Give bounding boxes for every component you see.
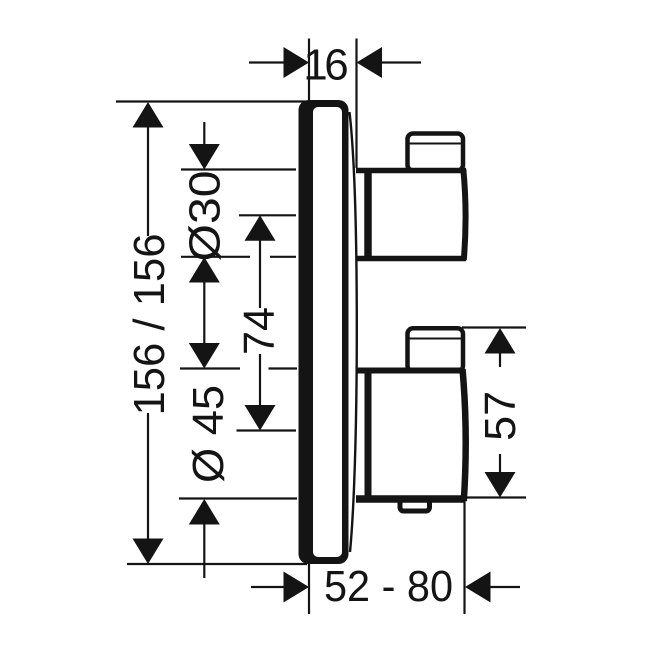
dim 57 arrow down: [485, 472, 516, 498]
upper handle grip left edge: [364, 168, 372, 261]
dim 16 arrow right: [357, 47, 383, 78]
dim Ø30 dimension line above: [203, 122, 205, 145]
dim 74 arrow down: [245, 405, 276, 431]
upper handle grip top edge: [356, 168, 466, 174]
svg-text:52 - 80: 52 - 80: [324, 562, 453, 611]
dim 52-80 leader line left: [251, 586, 284, 588]
dim 74 arrow up: [245, 215, 276, 241]
lower handle adjuster tab: [400, 498, 430, 511]
dim Ø45 top extension line segment a: [180, 367, 240, 369]
dim Ø30 dimension line below / link to Ø45: [203, 282, 205, 344]
dim 57 bottom extension line: [465, 496, 526, 498]
dim 52-80 leader line right: [490, 586, 520, 588]
escutcheon plate front profile curve: [350, 112, 357, 552]
dim 156 top extension line: [116, 100, 306, 102]
dim 16 arrow left: [284, 47, 310, 78]
lower handle grip bottom edge: [356, 495, 464, 503]
lower handle cap seam: [409, 338, 461, 340]
lower handle cap: [408, 328, 464, 371]
dim 156 arrow up: [133, 102, 164, 128]
dim 74 upper leader: [259, 241, 261, 309]
dim Ø45 arrow down: [189, 343, 220, 369]
upper handle centerline: [239, 214, 296, 216]
dim Ø45 arrow up: [189, 499, 220, 525]
svg-text:Ø30: Ø30: [181, 171, 230, 262]
dim 16 leader line left: [249, 61, 284, 63]
dim Ø30 arrow up: [189, 257, 220, 283]
dim Ø45 dimension line below: [203, 524, 205, 578]
dim 74 lower leader: [259, 354, 261, 406]
dim 16 leader line right: [382, 61, 421, 63]
dim Ø30 arrow down: [189, 144, 220, 170]
upper handle grip bottom edge: [356, 256, 466, 262]
dim 52-80 right extension line: [463, 497, 465, 614]
dim 156 arrow down: [133, 539, 164, 565]
dim 156 bottom extension line: [127, 563, 307, 565]
lower handle grip right edge: [463, 369, 466, 501]
dim 57 top extension line: [462, 326, 526, 328]
dim Ø45 top extension line segment b: [269, 367, 298, 369]
dim Ø30 bottom extension line segment a: [181, 256, 250, 258]
dim 16 right extension line: [355, 39, 357, 169]
svg-text:74: 74: [235, 307, 284, 355]
dim 156 dimension line lower segment: [147, 413, 149, 539]
svg-text:156 / 156: 156 / 156: [125, 234, 174, 416]
dim Ø45 bottom extension line: [179, 497, 297, 499]
upper handle cap seam: [409, 143, 461, 145]
dim 52-80 arrow pointing right: [284, 572, 310, 603]
dim 57 dimension line lower segment: [499, 454, 501, 473]
dim 57 dimension line upper segment: [499, 353, 501, 367]
dim 156 dimension line upper segment: [147, 127, 149, 236]
upper handle grip right edge: [463, 169, 465, 260]
dim 16 left extension line: [308, 39, 310, 101]
upper handle cap: [408, 134, 464, 171]
escutcheon plate body: [299, 100, 349, 564]
lower handle grip left edge: [365, 368, 372, 503]
lower handle grip top edge: [356, 368, 464, 374]
dim Ø30 top extension line: [181, 168, 296, 170]
svg-text:Ø 45: Ø 45: [184, 385, 233, 483]
dim 52-80 arrow pointing left: [465, 572, 491, 603]
svg-text:57: 57: [476, 391, 525, 441]
dim Ø30 bottom extension line segment b: [270, 256, 296, 258]
dim 52-80 left extension line: [308, 564, 310, 614]
lower handle centerline: [237, 429, 297, 431]
dim 57 arrow up: [485, 328, 516, 354]
svg-text:6: 6: [324, 41, 348, 90]
